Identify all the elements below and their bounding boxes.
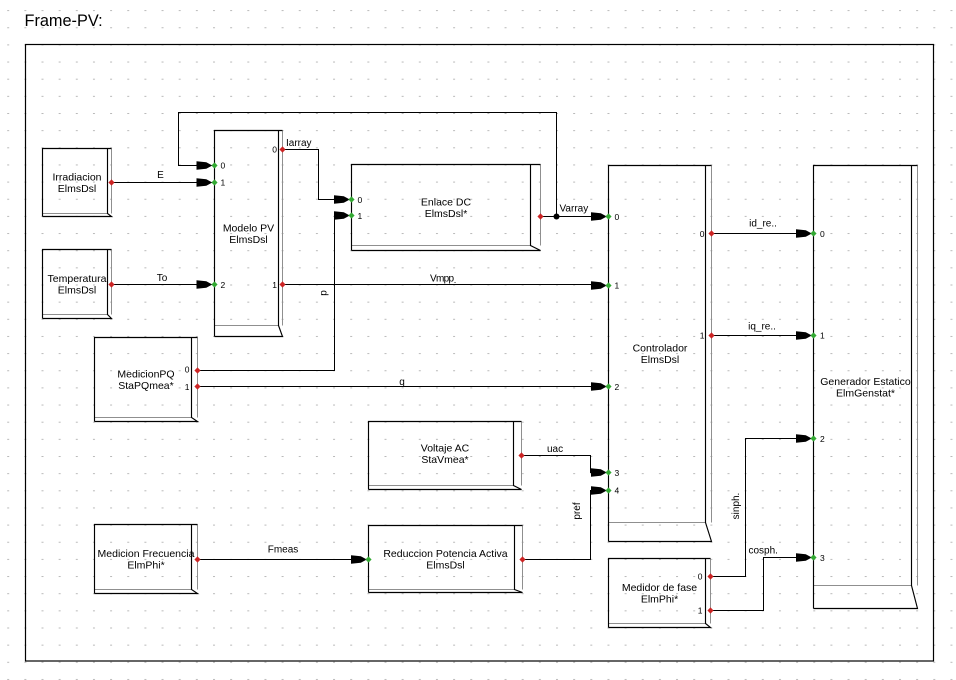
port Generador in3	[810, 554, 816, 560]
svg-text:1: 1	[358, 211, 363, 221]
wire uac: Voltaje AC out -> Controlador in3	[522, 456, 595, 473]
svg-text:1: 1	[698, 606, 703, 616]
wire Varray: Enlace DC out -> Controlador in0	[541, 216, 595, 218]
port Modelo PV in0	[211, 162, 217, 168]
svg-text:StaPQmea*: StaPQmea*	[118, 380, 173, 392]
port Enlace DC out0	[537, 213, 543, 219]
svg-text:1: 1	[272, 280, 277, 290]
svg-text:Controlador: Controlador	[633, 343, 688, 355]
port Generador in1	[810, 332, 816, 338]
wire id_re: Controlador out0 -> Generador in0	[712, 233, 800, 235]
svg-text:ElmPhi*: ElmPhi*	[641, 594, 678, 606]
port Modelo PV in2	[211, 281, 217, 287]
svg-text:2: 2	[820, 434, 825, 444]
arrow into Modelo PV in1	[197, 178, 213, 187]
svg-text:Medidor de fase: Medidor de fase	[622, 582, 697, 594]
svg-text:Frame-PV:: Frame-PV:	[25, 12, 103, 30]
svg-text:1: 1	[615, 281, 620, 291]
arrow into Generador in1	[796, 331, 812, 340]
svg-text:cosph.: cosph.	[749, 546, 778, 557]
svg-text:Enlace DC: Enlace DC	[421, 197, 472, 209]
svg-text:0: 0	[698, 572, 703, 582]
port Voltaje AC out0	[518, 452, 524, 458]
wire iq_re: Controlador out1 -> Generador in1	[712, 335, 800, 337]
port Generador in0	[810, 230, 816, 236]
wire Varray feedback: junction -> Modelo PV in0	[179, 113, 557, 217]
block Modelo PV	[215, 131, 283, 337]
wire To: Temperatura out -> Modelo PV in2	[112, 284, 200, 286]
wire cosph: Medidor out1 -> Generador in3	[711, 558, 800, 611]
block Medicion Frecuencia	[95, 525, 198, 594]
port Controlador in3	[605, 469, 611, 475]
svg-text:To: To	[157, 273, 168, 284]
port Modelo PV in1	[211, 179, 217, 185]
port Medidor out0	[707, 573, 713, 579]
svg-text:Medicion Frecuencia: Medicion Frecuencia	[98, 548, 195, 560]
block Controlador	[609, 166, 712, 542]
svg-text:sinph.: sinph.	[731, 493, 742, 520]
junction node Varray	[554, 214, 560, 220]
svg-text:0: 0	[358, 195, 363, 205]
svg-text:q: q	[399, 377, 405, 388]
svg-text:uac: uac	[547, 444, 563, 455]
svg-text:ElmsDsl: ElmsDsl	[641, 354, 680, 366]
svg-text:p: p	[319, 290, 330, 296]
svg-text:3: 3	[615, 468, 620, 478]
port Modelo PV out1	[279, 281, 285, 287]
svg-text:ElmsDsl: ElmsDsl	[58, 285, 97, 297]
wire E: Irradiacion out -> Modelo PV in1	[112, 182, 200, 184]
svg-text:Temperatura: Temperatura	[48, 273, 107, 285]
svg-text:ElmsDsl: ElmsDsl	[58, 183, 97, 195]
svg-text:Generador Estatico: Generador Estatico	[820, 376, 911, 388]
port Enlace DC in0	[348, 196, 354, 202]
port Controlador in4	[605, 487, 611, 493]
arrow into Generador in3	[796, 553, 812, 562]
svg-text:3: 3	[820, 553, 825, 563]
svg-text:Irradiacion: Irradiacion	[52, 172, 101, 184]
arrow into Generador in2	[796, 434, 812, 443]
svg-text:ElmsDsl: ElmsDsl	[229, 234, 268, 246]
port Medidor out1	[707, 607, 713, 613]
port Controlador in2	[605, 383, 611, 389]
svg-text:id_re..: id_re..	[749, 219, 777, 230]
wire q: MedicionPQ out1 -> Controlador in2	[198, 386, 595, 388]
svg-text:E: E	[157, 170, 164, 181]
svg-text:MedicionPQ: MedicionPQ	[117, 369, 174, 381]
port Irradiacion out0	[108, 179, 114, 185]
port MedicionPQ out1	[194, 383, 200, 389]
svg-text:Reduccion Potencia Activa: Reduccion Potencia Activa	[383, 548, 507, 560]
port Enlace DC in1	[348, 212, 354, 218]
svg-text:Voltaje AC: Voltaje AC	[421, 443, 470, 455]
wire Vmpp: Modelo PV out1 -> Controlador in1	[283, 284, 595, 286]
port Medicion Frecuencia out0	[194, 556, 200, 562]
svg-text:Modelo PV: Modelo PV	[223, 223, 274, 235]
block Voltaje AC	[369, 422, 522, 490]
block Reduccion Potencia Activa	[369, 526, 523, 593]
svg-text:pref: pref	[572, 502, 583, 519]
block Enlace DC	[352, 165, 541, 251]
arrow into Controlador in3	[591, 468, 607, 477]
block Temperatura	[43, 250, 112, 319]
svg-text:0: 0	[615, 212, 620, 222]
wire pref: Reduccion out -> Controlador in4	[523, 491, 595, 560]
block MedicionPQ	[95, 338, 198, 422]
svg-text:Varray: Varray	[560, 204, 589, 215]
arrow into Controlador in4	[591, 486, 607, 495]
wire Iarray: Modelo PV out0 -> Enlace DC in0	[283, 150, 338, 200]
arrow into Reduccion in	[351, 555, 367, 564]
svg-text:Iarray: Iarray	[286, 138, 312, 149]
arrow into Modelo PV in2	[197, 280, 213, 289]
wire sinph: Medidor out0 -> Generador in2	[711, 439, 800, 577]
port MedicionPQ out0	[194, 367, 200, 373]
port Controlador in0	[605, 213, 611, 219]
port Controlador out1	[708, 332, 714, 338]
port Reduccion out0	[519, 556, 525, 562]
svg-text:ElmGenstat*: ElmGenstat*	[836, 388, 895, 400]
arrow into Modelo PV in0	[197, 161, 213, 170]
svg-text:0: 0	[820, 229, 825, 239]
svg-text:2: 2	[615, 382, 620, 392]
svg-text:0: 0	[221, 161, 226, 171]
arrow into Controlador in2	[591, 382, 607, 391]
arrow into Enlace DC in0	[334, 195, 350, 204]
wire Fmeas: Medicion Frecuencia out -> Reduccion in	[198, 559, 355, 561]
port Controlador in1	[605, 282, 611, 288]
arrow into Controlador in0	[591, 212, 607, 221]
port Modelo PV out0	[279, 146, 285, 152]
svg-text:Vmpp..: Vmpp..	[430, 274, 457, 286]
block Irradiacion	[43, 149, 112, 217]
svg-text:1: 1	[221, 178, 226, 188]
svg-text:0: 0	[272, 145, 277, 155]
block Generador Estatico	[814, 166, 918, 609]
port Reduccion in0	[365, 556, 371, 562]
block Medidor de fase	[609, 559, 711, 628]
svg-text:2: 2	[221, 280, 226, 290]
arrow into Enlace DC in1	[334, 211, 350, 220]
svg-text:1: 1	[700, 331, 705, 341]
svg-text:Fmeas: Fmeas	[268, 545, 299, 556]
svg-text:StaVmea*: StaVmea*	[421, 454, 468, 466]
arrow into Generador in0	[796, 229, 812, 238]
port Generador in2	[810, 435, 816, 441]
svg-text:1: 1	[185, 382, 190, 392]
port Controlador out0	[708, 230, 714, 236]
svg-text:0: 0	[185, 365, 190, 375]
svg-text:1: 1	[820, 331, 825, 341]
arrow into Controlador in1	[591, 281, 607, 290]
svg-text:0: 0	[700, 229, 705, 239]
svg-text:iq_re..: iq_re..	[748, 322, 776, 333]
port Temperatura out0	[108, 281, 114, 287]
svg-text:ElmsDsl*: ElmsDsl*	[425, 208, 468, 220]
svg-text:ElmsDsl: ElmsDsl	[426, 560, 465, 572]
wire p: MedicionPQ out0 -> Enlace DC in1	[198, 216, 338, 371]
svg-text:ElmPhi*: ElmPhi*	[127, 560, 164, 572]
svg-text:4: 4	[615, 486, 620, 496]
